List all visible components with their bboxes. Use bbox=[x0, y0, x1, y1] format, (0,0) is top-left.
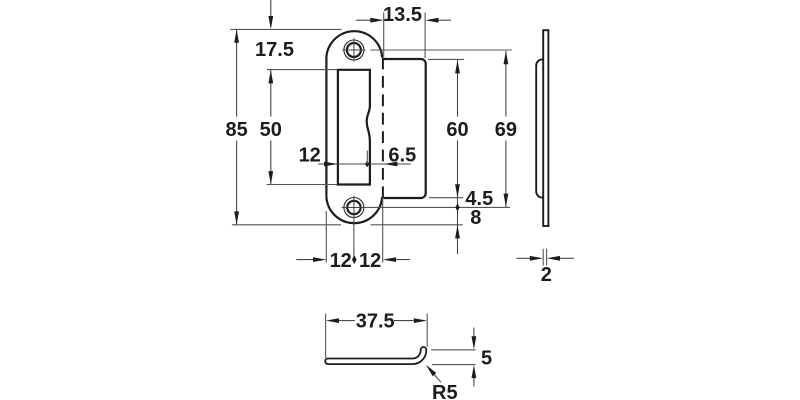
wavy edge stub extension bbox=[366, 151, 368, 165]
bottom 12 12 extension lines bbox=[325, 211, 327, 263]
fold line (dashed) bbox=[382, 58, 384, 198]
extension line lip bottom right bbox=[429, 197, 463, 199]
svg-text:50: 50 bbox=[260, 119, 282, 141]
dimension 13.5 bbox=[383, 13, 385, 58]
top hole crosshair bbox=[342, 49, 365, 51]
bottom view bent strip bbox=[325, 347, 426, 364]
bottom screw hole inner bbox=[347, 201, 360, 214]
svg-text:R5: R5 bbox=[432, 382, 458, 400]
extension line plate bottom left bbox=[232, 224, 341, 226]
bottom 12 12 dimension line bbox=[296, 259, 315, 261]
svg-text:2: 2 bbox=[541, 264, 552, 286]
dimension 17.5 top arrow bbox=[270, 0, 272, 27]
svg-text:60: 60 bbox=[446, 119, 468, 141]
side view plate bbox=[543, 30, 548, 226]
extension line hole center right bbox=[370, 49, 512, 51]
extension line cutout top bbox=[267, 69, 337, 71]
svg-text:5: 5 bbox=[481, 348, 492, 370]
extension line lip top right bbox=[428, 58, 464, 60]
junction dot on 12 dimension bbox=[365, 161, 369, 168]
svg-text:37.5: 37.5 bbox=[356, 311, 395, 333]
svg-text:12: 12 bbox=[299, 145, 321, 167]
side view lip profile bbox=[536, 59, 543, 197]
dimension 5 bbox=[431, 349, 476, 351]
bottom screw hole outer bbox=[344, 198, 364, 218]
thickness 2 dimension bbox=[516, 257, 530, 259]
R5 leader arrow bbox=[432, 371, 442, 382]
dimension 37.5 bbox=[325, 314, 327, 359]
diamond between 12 12 bbox=[352, 255, 357, 264]
svg-text:8: 8 bbox=[470, 207, 481, 229]
extension line plate bottom right bbox=[371, 224, 463, 226]
dimension 69 line bbox=[505, 51, 507, 117]
svg-text:17.5: 17.5 bbox=[255, 39, 294, 61]
top screw hole outer bbox=[344, 40, 364, 60]
svg-text:12: 12 bbox=[330, 250, 352, 272]
svg-text:13.5: 13.5 bbox=[383, 4, 422, 26]
svg-text:12: 12 bbox=[359, 250, 381, 272]
plate outline (front view, left edge + top arc) bbox=[326, 31, 382, 197]
latch cutout bbox=[338, 70, 370, 185]
extension line bottom hole center right bbox=[366, 206, 510, 208]
svg-text:6.5: 6.5 bbox=[388, 144, 416, 166]
dot on 4.5/8 boundary bbox=[455, 203, 459, 211]
svg-text:69: 69 bbox=[495, 119, 517, 141]
lip tab (front view) bbox=[383, 59, 425, 198]
dimension 60 / 4.5 / 8 line bbox=[457, 60, 459, 116]
dimension 12 / 6.5 row bbox=[318, 163, 411, 165]
dimension 85 line bbox=[236, 29, 238, 116]
top screw hole inner bbox=[347, 43, 361, 57]
svg-text:85: 85 bbox=[225, 119, 247, 141]
extension line cutout bottom bbox=[267, 184, 337, 186]
thickness 2 extension lines bbox=[542, 249, 544, 266]
bottom hole crosshair bbox=[342, 207, 367, 209]
plate outline bottom arc bbox=[326, 197, 382, 223]
extension line plate top bbox=[230, 28, 341, 30]
dimension 50 line bbox=[270, 70, 272, 117]
